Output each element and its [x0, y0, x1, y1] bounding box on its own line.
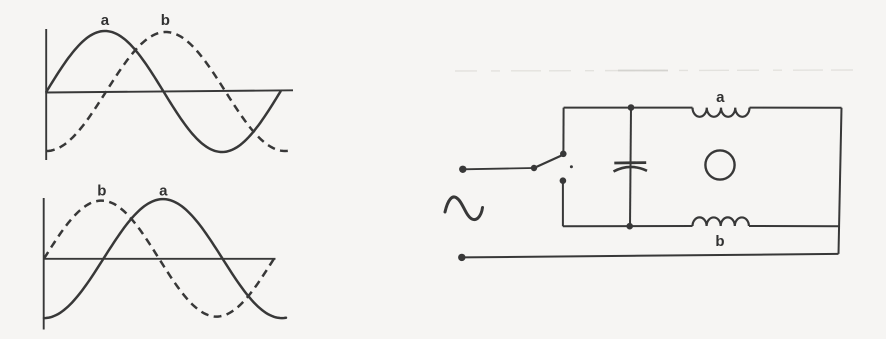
curve b (dashed sine, top plot) — [47, 32, 291, 151]
capacitor top plate (straight) — [614, 161, 646, 164]
faint print bleed-through streak — [455, 70, 855, 71]
bottom-left waveform plot horizontal axis — [43, 258, 276, 260]
wire: right vertical side — [839, 108, 842, 254]
node: lower supply terminal — [458, 254, 465, 261]
motor (circle) — [705, 150, 734, 179]
curve a (solid sine, bottom plot) — [44, 199, 286, 318]
AC source squiggle — [445, 197, 483, 220]
speck between switch contacts — [570, 165, 573, 168]
node: switch upper contact — [560, 151, 567, 158]
wire: top rail — [564, 107, 842, 109]
node: switch lower contact — [560, 177, 567, 184]
capacitor bottom plate (curved) — [614, 167, 648, 172]
node: switch pole — [531, 165, 537, 171]
curve b (dashed sine, bottom plot) — [44, 201, 276, 317]
node: capacitor top junction — [628, 104, 635, 111]
svg-text:b: b — [161, 12, 170, 29]
wire: lower contact down to bottom rail — [562, 181, 564, 227]
svg-text:b: b — [97, 183, 106, 200]
top-left waveform plot vertical axis — [45, 29, 47, 160]
node: left supply terminal (top) — [459, 166, 466, 173]
node: capacitor bottom junction — [626, 223, 633, 230]
svg-text:a: a — [159, 183, 168, 200]
svg-text:a: a — [716, 89, 725, 106]
wire: upper contact up to top rail — [562, 108, 564, 154]
svg-text:b: b — [715, 233, 724, 250]
wire: supply terminal to switch pole — [463, 168, 534, 169]
wire: bottom rail — [563, 225, 840, 227]
svg-text:a: a — [101, 12, 110, 29]
inductor b (winding) — [693, 217, 749, 226]
inductor a (winding) — [693, 108, 750, 117]
top-left waveform plot horizontal axis — [45, 90, 293, 92]
curve a (solid sine, top plot) — [47, 31, 281, 152]
wire: long bottom supply line — [462, 254, 839, 258]
bottom-left waveform plot vertical axis — [43, 198, 45, 330]
capacitor C lead (vertical through) — [630, 108, 631, 227]
switch blade — [534, 156, 562, 169]
